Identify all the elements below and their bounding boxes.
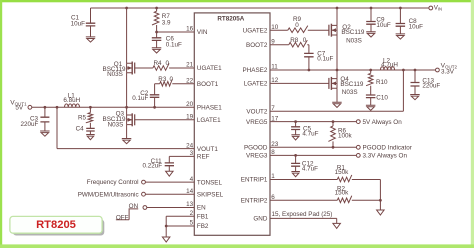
svg-text:0.1uF: 0.1uF xyxy=(166,41,182,48)
svg-text:ON: ON xyxy=(129,203,139,210)
svg-text:10uF: 10uF xyxy=(409,24,424,31)
svg-text:C4: C4 xyxy=(76,126,85,133)
svg-text:0: 0 xyxy=(170,76,174,83)
svg-text:100k: 100k xyxy=(338,132,353,139)
svg-text:150k: 150k xyxy=(335,169,350,176)
svg-text:9: 9 xyxy=(271,38,275,45)
svg-text:4: 4 xyxy=(190,176,194,183)
svg-text:EN: EN xyxy=(197,205,206,212)
svg-text:VREG5: VREG5 xyxy=(246,119,268,126)
svg-text:R8: R8 xyxy=(290,37,299,44)
svg-text:PGOOD Indicator: PGOOD Indicator xyxy=(363,145,412,152)
svg-text:4.7uH: 4.7uH xyxy=(381,61,398,68)
svg-text:15, Exposed Pad (25): 15, Exposed Pad (25) xyxy=(272,211,333,218)
svg-text:10: 10 xyxy=(271,24,279,31)
svg-text:17: 17 xyxy=(271,115,279,122)
svg-text:R10: R10 xyxy=(376,79,388,86)
svg-text:11: 11 xyxy=(271,64,278,71)
svg-text:14: 14 xyxy=(186,188,194,195)
svg-text:LGATE2: LGATE2 xyxy=(244,81,268,88)
svg-text:N03S: N03S xyxy=(108,121,124,128)
svg-text:8: 8 xyxy=(271,149,275,156)
svg-text:UGATE1: UGATE1 xyxy=(197,65,222,72)
svg-text:3.3V Always On: 3.3V Always On xyxy=(363,153,408,160)
svg-text:VOUT2: VOUT2 xyxy=(246,108,267,115)
svg-text:N03S: N03S xyxy=(107,71,123,78)
svg-text:22: 22 xyxy=(186,78,194,85)
svg-text:OFF: OFF xyxy=(116,214,129,221)
svg-text:10uF: 10uF xyxy=(71,21,86,28)
svg-text:FB2: FB2 xyxy=(197,223,209,230)
svg-text:220uF: 220uF xyxy=(422,82,440,89)
svg-text:6.8uH: 6.8uH xyxy=(63,97,80,104)
svg-text:19: 19 xyxy=(186,114,194,121)
svg-text:7: 7 xyxy=(271,105,275,112)
svg-text:VREG3: VREG3 xyxy=(246,153,268,160)
svg-text:R3: R3 xyxy=(158,76,167,83)
svg-text:SKIPSEL: SKIPSEL xyxy=(197,191,224,198)
svg-text:BOOT2: BOOT2 xyxy=(246,42,268,49)
svg-text:0: 0 xyxy=(166,60,170,67)
svg-text:0: 0 xyxy=(303,37,307,44)
svg-text:BSC119: BSC119 xyxy=(340,81,363,88)
svg-text:0: 0 xyxy=(295,22,299,29)
svg-text:20: 20 xyxy=(186,101,194,108)
svg-text:PHASE1: PHASE1 xyxy=(197,105,222,112)
svg-text:24: 24 xyxy=(186,142,194,149)
svg-text:PWM/DEM/Ultrasonic: PWM/DEM/Ultrasonic xyxy=(78,191,139,198)
svg-text:N03S: N03S xyxy=(342,89,358,96)
svg-text:5V: 5V xyxy=(15,105,24,112)
svg-text:3.9: 3.9 xyxy=(162,20,171,27)
svg-text:VIN: VIN xyxy=(197,29,208,36)
svg-text:C10: C10 xyxy=(376,95,388,102)
svg-text:10uF: 10uF xyxy=(376,22,391,29)
svg-text:PHASE2: PHASE2 xyxy=(243,67,268,74)
svg-text:VOUT1: VOUT1 xyxy=(197,146,218,153)
svg-text:150k: 150k xyxy=(335,190,350,197)
svg-text:ENTRIP2: ENTRIP2 xyxy=(241,198,268,205)
svg-text:2: 2 xyxy=(190,210,194,217)
svg-text:3: 3 xyxy=(190,150,194,157)
svg-text:0.1uF: 0.1uF xyxy=(132,95,148,102)
svg-text:R4: R4 xyxy=(154,60,163,67)
svg-text:0.22uF: 0.22uF xyxy=(142,162,162,169)
svg-text:4.7uF: 4.7uF xyxy=(302,130,318,137)
svg-text:13: 13 xyxy=(186,201,194,208)
svg-text:23: 23 xyxy=(271,141,279,148)
svg-text:R5: R5 xyxy=(78,115,87,122)
svg-text:16: 16 xyxy=(186,26,194,33)
svg-text:REF: REF xyxy=(197,154,210,161)
svg-text:RT8205: RT8205 xyxy=(36,219,76,231)
svg-text:PGOOD: PGOOD xyxy=(244,145,268,152)
svg-text:FB1: FB1 xyxy=(197,214,209,221)
svg-text:TONSEL: TONSEL xyxy=(197,179,223,186)
svg-text:21: 21 xyxy=(186,62,194,69)
svg-text:4.7uF: 4.7uF xyxy=(302,165,318,172)
svg-text:12: 12 xyxy=(271,77,279,84)
svg-text:UGATE2: UGATE2 xyxy=(243,27,268,34)
svg-text:1: 1 xyxy=(271,173,275,180)
svg-text:GND: GND xyxy=(253,216,267,223)
svg-text:5V Always On: 5V Always On xyxy=(363,119,403,126)
svg-text:3.3V: 3.3V xyxy=(441,69,455,76)
svg-text:BSC119: BSC119 xyxy=(341,29,364,36)
svg-text:RT8205A: RT8205A xyxy=(217,15,244,22)
svg-text:220uF: 220uF xyxy=(20,121,38,128)
svg-text:LGATE1: LGATE1 xyxy=(197,117,221,124)
svg-text:6: 6 xyxy=(271,194,275,201)
svg-text:5: 5 xyxy=(190,220,194,227)
svg-text:ENTRIP1: ENTRIP1 xyxy=(241,177,268,184)
svg-text:0.1uF: 0.1uF xyxy=(317,55,333,62)
svg-text:Frequency Control: Frequency Control xyxy=(87,179,139,186)
svg-text:BOOT1: BOOT1 xyxy=(197,81,219,88)
svg-text:N03S: N03S xyxy=(346,37,362,44)
